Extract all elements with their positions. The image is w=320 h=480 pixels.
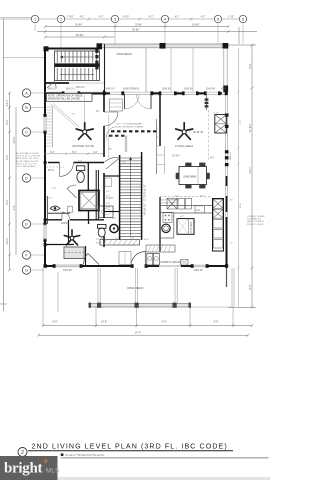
powder room walls (104, 175, 120, 177)
svg-text:8'-0": 8'-0" (6, 154, 9, 159)
svg-text:4'-2": 4'-2" (149, 17, 154, 19)
svg-text:WIN 2-6: WIN 2-6 (230, 151, 232, 159)
svg-text:OPEN DECK: OPEN DECK (127, 286, 144, 290)
island (177, 219, 194, 235)
title keynote circle 2 (18, 448, 27, 457)
tiny dims above hatch band (101, 236, 134, 240)
svg-text:27'-4": 27'-4" (135, 331, 141, 334)
left border extension line (3, 18, 5, 311)
title underline (28, 450, 233, 452)
svg-text:4½": 4½" (210, 156, 214, 160)
column top-left (44, 46, 49, 51)
svg-text:E: E (25, 223, 28, 227)
stair2 center line arrow (130, 157, 132, 236)
door lower-left stair (47, 82, 56, 89)
grid extension lines (35, 23, 243, 48)
left bubble leader lines (31, 93, 44, 270)
svg-text:bright: bright (4, 461, 43, 477)
hall small dims (106, 196, 114, 209)
wall: bath north y=162.5 (48, 162, 104, 164)
svg-text:9'-0": 9'-0" (240, 120, 242, 125)
window sill label row (76, 87, 85, 89)
svg-text:2'-6": 2'-6" (106, 191, 110, 193)
svg-text:3040: 3040 (221, 89, 227, 91)
svg-text:3: 3 (114, 18, 116, 22)
svg-text:3040 SH: 3040 SH (162, 89, 171, 91)
door stair2 top (105, 158, 120, 169)
dashes right of living fan (194, 131, 205, 133)
svg-text:1: 1 (34, 18, 36, 22)
left dim string (8, 92, 16, 272)
dine table (179, 167, 207, 185)
right margin note block (247, 216, 265, 226)
dimension ticks on grid line (88, 18, 193, 21)
ref box (195, 206, 205, 213)
bulkhead note (117, 122, 144, 129)
door bed2 (83, 254, 99, 265)
svg-text:4: 4 (164, 18, 166, 22)
svg-text:4'-2": 4'-2" (99, 17, 104, 19)
svg-text:4'-1½": 4'-1½" (248, 166, 252, 173)
svg-text:6: 6 (242, 18, 244, 22)
pantry / fridge column (213, 199, 224, 252)
grid bubble 2 (57, 15, 64, 22)
svg-text:2: 2 (60, 18, 62, 22)
svg-text:D: D (25, 177, 28, 181)
svg-text:LIVING AREA: LIVING AREA (175, 144, 193, 148)
svg-text:16'-8¼": 16'-8¼" (75, 23, 83, 26)
svg-text:9'-2": 9'-2" (249, 63, 252, 68)
corner block right wall (223, 86, 228, 93)
shelf stub upper right (206, 95, 208, 110)
stair main enclosure (55, 51, 100, 81)
wall: right deck edge lower (226, 268, 228, 288)
cabinet hatch band kitchen (146, 245, 175, 252)
svg-text:BATT INSUL. TYP U.N.O.: BATT INSUL. TYP U.N.O. (16, 157, 39, 160)
wall: bottom exterior y=266 (45, 265, 228, 267)
svg-text:WIN 3-0: WIN 3-0 (106, 89, 115, 91)
note box (47, 94, 93, 102)
beam: open deck top edge (100, 44, 228, 48)
stair run arrows (60, 56, 94, 58)
leader line left margin y=57.5 (4, 57, 45, 59)
svg-text:FOR FINAL KIT: FOR FINAL KIT (247, 218, 262, 221)
ceiling slope lines (50, 104, 76, 127)
door master entry (104, 112, 118, 126)
toilet bath2 (98, 225, 107, 238)
svg-text:MASTER SUITE: MASTER SUITE (73, 144, 95, 148)
svg-text:18'-6½": 18'-6½" (172, 154, 180, 158)
svg-text:18'-6¼": 18'-6¼" (76, 33, 85, 37)
grid bubble 4 (161, 15, 168, 22)
shelf hatch band lower (100, 240, 140, 246)
tub bath2 (99, 206, 113, 218)
svg-text:5'-0": 5'-0" (72, 152, 77, 154)
wall bed2 north (45, 244, 74, 246)
sofa living (156, 119, 158, 174)
window: left wall upper (44, 116, 46, 240)
svg-text:9'-8": 9'-8" (214, 320, 219, 323)
grid bubble 1 (31, 15, 38, 22)
column stair top-right (97, 43, 103, 49)
svg-text:3'-0": 3'-0" (50, 152, 55, 154)
grid bubble 6 (239, 15, 246, 22)
stair landing bar (55, 63, 100, 67)
linen closet hall (119, 252, 131, 265)
stair2 treads (120, 158, 141, 236)
svg-text:13'-8": 13'-8" (101, 320, 107, 323)
svg-text:2'-8": 2'-8" (106, 203, 110, 205)
counter edge (160, 206, 213, 239)
stair treads upper flight (57, 51, 96, 63)
wall laundry south y=219.8 (45, 219, 62, 221)
stair2 right wall (141, 152, 143, 240)
svg-text:1'-10": 1'-10" (228, 17, 234, 19)
bright mls box (0, 456, 58, 480)
sparkle (43, 459, 48, 464)
svg-text:WIN 3-0: WIN 3-0 (76, 87, 85, 89)
deck divider verticals (170, 46, 172, 92)
svg-text:6'-2": 6'-2" (180, 216, 184, 218)
svg-text:2: 2 (21, 450, 24, 456)
svg-text:4'-2": 4'-2" (80, 17, 85, 19)
left row bubbles A-G (22, 89, 30, 274)
dimension row A y=26.5 (44, 25, 230, 28)
svg-text:PRIOR TO WORK: PRIOR TO WORK (247, 224, 264, 226)
svg-text:18'-8¼": 18'-8¼" (192, 23, 200, 26)
shower master (79, 191, 99, 211)
svg-text:12'-2": 12'-2" (107, 135, 109, 141)
svg-text:DUCT WORK BY OTHERS: DUCT WORK BY OTHERS (117, 126, 144, 128)
svg-text:3040 SH: 3040 SH (206, 89, 215, 91)
svg-text:9'-8": 9'-8" (53, 320, 58, 323)
wall: top exterior (stair block) (45, 48, 100, 50)
svg-text:3050 SH: 3050 SH (63, 270, 72, 272)
svg-text:G: G (25, 269, 28, 273)
margin note text block (16, 152, 41, 168)
french door main wall (125, 95, 152, 110)
upper cabinets w/ X (167, 198, 192, 209)
svg-text:3040 SH: 3040 SH (184, 89, 193, 91)
svg-text:MLS: MLS (46, 467, 60, 474)
fan leader line (84, 95, 86, 130)
svg-text:2'-6": 2'-6" (175, 196, 179, 198)
svg-text:KITCHEN: KITCHEN (190, 222, 193, 233)
ceiling fan living (176, 123, 193, 140)
dimension row B y=31.5 (37, 30, 257, 33)
window posts left wall (43, 114, 46, 246)
svg-text:4'-1½": 4'-1½" (5, 99, 9, 106)
toilet master (76, 166, 84, 183)
stair landing balusters (95, 50, 98, 70)
wall: bath partition x=88 (87, 163, 89, 190)
stud wall note dashed (160, 196, 212, 198)
svg-text:8'-0": 8'-0" (6, 199, 9, 204)
bottom dim line (42, 324, 254, 327)
small cabinet w/ X right (181, 260, 189, 266)
svg-text:WIN 3-0: WIN 3-0 (66, 89, 75, 91)
ceiling fan master (76, 123, 93, 140)
svg-text:2'-0": 2'-0" (48, 198, 52, 200)
subtitle line (61, 457, 269, 459)
svg-text:LNDRY: LNDRY (61, 222, 69, 225)
svg-text:3'-0": 3'-0" (93, 152, 98, 154)
ceiling fan bed2 (64, 230, 79, 245)
wall: main mid exterior y=93 (45, 92, 228, 94)
kitchen west wall (159, 197, 161, 252)
svg-text:4'-1½": 4'-1½" (5, 237, 9, 244)
svg-text:2'-8": 2'-8" (106, 207, 111, 209)
svg-text:2'-5": 2'-5" (112, 218, 116, 220)
svg-text:C: C (25, 131, 28, 135)
svg-text:8'-0": 8'-0" (6, 119, 9, 124)
svg-text:3'-1": 3'-1" (106, 196, 110, 198)
grid leader line top (0, 18, 243, 20)
svg-text:4'-0": 4'-0" (78, 161, 82, 163)
svg-text:SCALE AT THE SECOND THE LEVEL: SCALE AT THE SECOND THE LEVEL (65, 454, 105, 457)
svg-text:3'-4": 3'-4" (13, 205, 16, 210)
window-wall: right wall mullions (226, 92, 228, 217)
wall: left exterior (44, 48, 46, 268)
window labels top (48, 89, 227, 91)
bulkhead dashed line (111, 130, 159, 132)
door bath inner diagonal (67, 185, 77, 198)
svg-text:3050 SH: 3050 SH (194, 270, 203, 272)
dine chairs (176, 163, 210, 189)
svg-text:WIND FRENCH: WIND FRENCH (123, 89, 140, 91)
svg-text:8'-2": 8'-2" (249, 284, 252, 289)
powder vanity (105, 178, 112, 187)
wall: bath partition x=97 (95, 170, 97, 220)
dimension row C y=37 (left portion) (44, 36, 115, 39)
duct chase lines (124, 136, 126, 153)
stair south wall (45, 82, 69, 84)
grid bubble 5 (214, 15, 221, 22)
svg-text:ALL INT WALLS 2x4 WD: ALL INT WALLS 2x4 WD (16, 160, 39, 163)
wall: right exterior (224, 48, 227, 86)
svg-text:28'-8¾": 28'-8¾" (132, 28, 140, 31)
svg-text:5'-8": 5'-8" (162, 320, 167, 323)
overall dim line 27-4 (39, 334, 249, 336)
svg-text:WINDOWS WILL BE LIMITED: WINDOWS WILL BE LIMITED (48, 97, 80, 100)
media closet w/ X (215, 115, 227, 134)
wall closet east x=85.5 (85, 246, 87, 266)
svg-text:4'-11": 4'-11" (144, 239, 149, 241)
stair treads lower flight (57, 68, 96, 81)
bottom gray band (58, 477, 271, 480)
column at grid 4 (160, 43, 166, 49)
column top-right (223, 43, 229, 49)
washer dryer (147, 254, 153, 266)
svg-text:W.I.C.: W.I.C. (48, 169, 55, 172)
scattered dim texts (48, 161, 234, 245)
svg-text:5: 5 (217, 18, 219, 22)
svg-text:4'-1½": 4'-1½" (12, 136, 16, 143)
svg-text:ALL EXT WALLS 2x6 WD: ALL EXT WALLS 2x6 WD (16, 152, 39, 155)
svg-text:2ND LIVING LEVEL PLAN (3RD FL.: 2ND LIVING LEVEL PLAN (3RD FL. IBC CODE) (32, 443, 228, 451)
master closet band along left wall (51, 106, 53, 147)
svg-text:LAYOUT & SPECS: LAYOUT & SPECS (247, 220, 265, 223)
powder round sink (110, 224, 118, 232)
window posts main mid wall (62, 91, 228, 95)
svg-text:REF: REF (196, 210, 201, 212)
interior dim master (108, 115, 110, 158)
svg-text:A: A (25, 92, 28, 96)
svg-text:U.N.O. SEE DETAILS: U.N.O. SEE DETAILS (16, 165, 36, 168)
kitchen sink (162, 224, 170, 232)
grid bubble 3 (111, 15, 118, 22)
dresser by foyer (110, 99, 123, 111)
range (163, 213, 172, 223)
svg-text:16R @ 7¾" / 11 TRDS @ 10": 16R @ 7¾" / 11 TRDS @ 10" (144, 184, 147, 215)
door master bath (60, 163, 74, 177)
laundry door arc (62, 212, 70, 220)
wall: hall x=104 (103, 90, 105, 247)
svg-text:OPEN BELW: OPEN BELW (117, 52, 133, 56)
open-below divider (145, 48, 147, 92)
svg-text:17'-8¼": 17'-8¼" (249, 124, 252, 133)
door kitchen entry (131, 252, 145, 267)
svg-text:5'-3": 5'-3" (52, 188, 56, 190)
dim texts living (172, 154, 214, 160)
vanity master (48, 212, 70, 214)
svg-text:3'-0": 3'-0" (200, 196, 204, 198)
svg-text:WIN 3-0: WIN 3-0 (48, 89, 57, 91)
interior dim line right x=238 (237, 48, 240, 307)
svg-text:7'-8": 7'-8" (122, 162, 126, 164)
stair right wall (104, 44, 106, 92)
svg-text:CABINETS (ABOVE): CABINETS (ABOVE) (160, 261, 182, 264)
svg-text:B: B (25, 106, 28, 110)
deck bottom rail (89, 304, 191, 308)
wic shelf dashed (46, 166, 64, 168)
deck rail posts (89, 303, 192, 308)
subtitle bullet (61, 453, 64, 456)
wall laundry east x=68.5 (68, 220, 70, 245)
bulkhead leader arc (106, 127, 116, 138)
deck posts verticals (98, 268, 234, 307)
dashed opening line (208, 110, 210, 160)
closet bed2 hatched (64, 247, 84, 259)
stair2 left wall (119, 155, 121, 240)
svg-text:4'-2": 4'-2" (175, 17, 180, 19)
foyer wall x=160 (159, 92, 161, 146)
svg-text:DINE AREA: DINE AREA (184, 176, 197, 179)
svg-text:4'-2": 4'-2" (201, 17, 206, 19)
svg-text:20'-8¼": 20'-8¼" (135, 23, 143, 26)
svg-text:2x6 WD STUD: 2x6 WD STUD (161, 202, 176, 204)
interior dim line master (44, 153, 105, 156)
